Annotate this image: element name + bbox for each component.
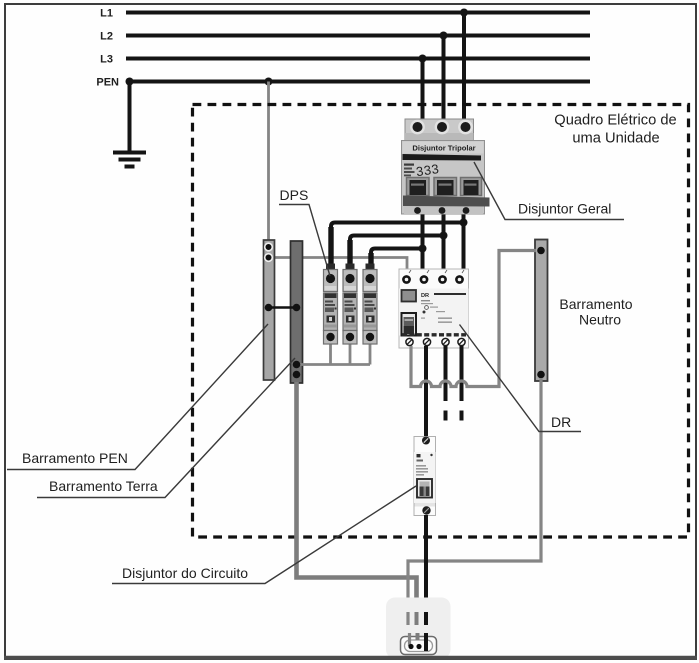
svg-text:Quadro Elétrico de: Quadro Elétrico de	[554, 113, 676, 129]
wire DPS earth leads to Terra busbar (grey)	[297, 342, 371, 365]
node neutral pin in socket	[408, 644, 413, 649]
wire breaker pole3 output down to DR pole 4	[462, 212, 466, 272]
socket face of outlet	[401, 637, 437, 655]
wire phase breaker output down into outlet	[424, 515, 428, 606]
node junction DPS1 feed on pole3 wire	[460, 219, 468, 227]
svg-text:333: 333	[415, 161, 440, 179]
label DPS with leader line	[279, 187, 330, 276]
svg-text:L1: L1	[100, 8, 113, 20]
wire neutral from PEN busbar to DR pole 1 (grey)	[274, 258, 407, 273]
wire DPS3 feed from phase 1 (horizontal + drop)	[371, 249, 423, 269]
node L1 tap	[460, 9, 468, 17]
node neutral output on Neutro busbar	[537, 371, 545, 379]
residual current device DR (pins 1,3,5,7 top / 2,4,6,8 bottom)	[399, 269, 469, 348]
wire PEN down to ground electrode	[128, 82, 132, 152]
wire phase stub DR pole4 output (to other circuits)	[460, 346, 464, 421]
wire L2 bus	[100, 31, 590, 43]
node earth pin in socket	[416, 644, 421, 649]
wire L3 drop to breaker pole 1	[421, 59, 425, 123]
wire neutral concealed in outlet (dashed grey)	[408, 612, 410, 646]
node junction DPS2 feed on pole2 wire	[440, 232, 448, 240]
wire L3 bus	[100, 54, 590, 66]
node DPS earth bus on Terra busbar	[293, 361, 301, 369]
wire breaker pole2 output down to DR pole 3	[442, 212, 446, 272]
svg-text:Barramento Terra: Barramento Terra	[49, 478, 158, 494]
svg-text:L2: L2	[100, 31, 113, 43]
svg-text:Barramento PEN: Barramento PEN	[22, 450, 128, 466]
svg-text:DPS: DPS	[280, 187, 309, 203]
label Disjuntor do Circuito with leader line	[112, 486, 416, 584]
wire phase stub DR pole3 output (to other circuits)	[444, 346, 448, 421]
node PEN to earth junction	[126, 78, 134, 86]
svg-text:Neutro: Neutro	[579, 312, 621, 328]
wire phase DR pole2 output down to Disjuntor do Circuito	[424, 346, 428, 437]
surge protector DPS3	[363, 264, 377, 345]
label Barramento PEN with leader line	[7, 324, 268, 470]
wire PEN tap down to PEN busbar (grey)	[267, 82, 270, 243]
label Disjuntor Geral with leader line	[474, 162, 624, 220]
surge protector DPS2	[343, 264, 357, 345]
node PEN tap to PEN busbar	[265, 78, 273, 86]
svg-text:Barramento: Barramento	[559, 296, 632, 312]
wire phase concealed in outlet (dashed black)	[424, 612, 428, 651]
svg-text:Disjuntor Tripolar: Disjuntor Tripolar	[412, 144, 475, 153]
surge protector DPS1	[324, 264, 338, 345]
node Terra busbar output	[293, 371, 301, 379]
node link on PEN busbar	[265, 304, 273, 312]
label Barramento Neutro	[559, 296, 632, 328]
wire protective earth Terra busbar to outlet (thick grey)	[297, 382, 417, 604]
wire L1 bus	[100, 8, 590, 20]
svg-text:Disjuntor do Circuito: Disjuntor do Circuito	[122, 565, 248, 581]
label Quadro Eletrico de uma Unidade	[554, 113, 676, 147]
svg-text:L3: L3	[100, 54, 113, 66]
wire DPS2 feed from phase 2 (horizontal + drop)	[350, 236, 444, 269]
node neutral feed on Neutro busbar	[537, 247, 545, 255]
ground (earth electrode symbol)	[113, 153, 146, 167]
svg-text:DR: DR	[551, 414, 571, 430]
circuit breaker U1 Disjuntor Tripolar (Disjuntor Geral)	[402, 119, 490, 214]
node junction DPS3 feed on pole1 wire	[419, 245, 427, 253]
node L3 tap	[419, 55, 427, 63]
svg-text:PEN: PEN	[96, 77, 119, 89]
wire PEN busbar to Terra busbar link	[269, 306, 297, 309]
circuit breaker Disjuntor do Circuito (single pole)	[414, 437, 436, 516]
wire L2 drop to breaker pole 2	[442, 36, 446, 123]
wire neutral Neutro busbar down to outlet	[408, 378, 541, 604]
label Barramento Terra with leader line	[37, 358, 295, 498]
node link on Terra busbar	[293, 304, 301, 312]
node PEN drop into PEN busbar	[265, 243, 273, 251]
wire earth concealed in outlet (dashed grey)	[417, 612, 418, 640]
busbar Barramento Neutro	[535, 240, 548, 382]
wire L1 drop to breaker pole 3	[462, 13, 466, 123]
label DR with leader line	[460, 325, 582, 432]
svg-text:DR: DR	[421, 293, 429, 299]
wire breaker pole1 output down to DR pole 2	[421, 212, 425, 272]
node L2 tap	[440, 32, 448, 40]
svg-text:Disjuntor Geral: Disjuntor Geral	[518, 201, 611, 217]
wire DPS1 feed from phase 3 (horizontal + drop)	[331, 223, 464, 269]
busbar Barramento Terra	[291, 241, 303, 383]
node neutral take-off on PEN busbar	[265, 254, 273, 262]
busbar Barramento PEN	[264, 240, 275, 380]
panel boundary dashed box (Quadro Eletrico)	[193, 105, 689, 538]
wire neutral DR pole1 output to Neutro busbar (with wire hops)	[411, 251, 536, 387]
wire PEN bus	[96, 77, 590, 89]
svg-text:uma Unidade: uma Unidade	[572, 131, 659, 147]
outlet (tomada) box	[386, 598, 451, 659]
